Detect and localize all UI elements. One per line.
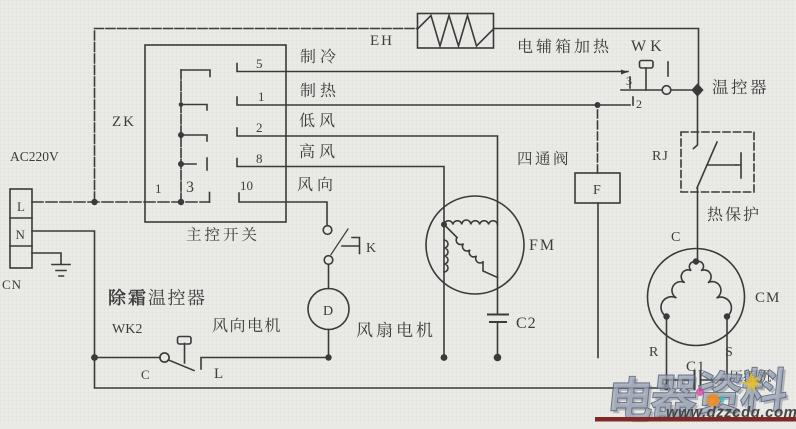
- label 除霜温控器: [109, 289, 125, 306]
- svg-text:CN: CN: [2, 277, 22, 292]
- junction S node: [724, 313, 730, 319]
- svg-text:3: 3: [186, 179, 194, 196]
- resistor EH heater: [418, 14, 494, 49]
- wire L input line: [32, 201, 210, 203]
- svg-text:10: 10: [240, 178, 253, 193]
- label 制冷: [301, 49, 316, 64]
- svg-text:8: 8: [256, 151, 263, 166]
- wire FM left leg to bus: [443, 225, 445, 358]
- watermark 电器资料: [595, 367, 796, 422]
- svg-text:C2: C2: [516, 315, 537, 332]
- wire row 5 cooling to WK pin3: [237, 64, 628, 72]
- svg-text:K: K: [366, 241, 376, 256]
- wire N line: [32, 231, 95, 358]
- wire EH to right bus corner: [494, 29, 699, 86]
- wire row 10 wind direction to K switch: [239, 193, 327, 226]
- junction C node: [693, 258, 699, 264]
- wire top bus from ZK area to EH: [95, 29, 418, 202]
- svg-text:C: C: [671, 230, 680, 245]
- label 高风: [300, 143, 314, 158]
- svg-text:EH: EH: [370, 33, 394, 49]
- label 电辅箱加热: [519, 39, 532, 53]
- label 温控器: [713, 79, 729, 94]
- svg-text:1: 1: [258, 89, 265, 104]
- svg-text:F: F: [593, 183, 601, 198]
- wire upper bus left to WK2: [95, 357, 161, 359]
- switch ZK movable contact column: [181, 70, 210, 201]
- junction dot L/bus: [91, 199, 97, 205]
- motor D wind direction: [308, 289, 349, 330]
- label 制热: [301, 83, 316, 98]
- thermal protector RJ: [681, 132, 754, 192]
- label 风向: [298, 177, 313, 191]
- thermostat WK lever and contacts: [621, 61, 693, 106]
- ground: [32, 253, 70, 276]
- label 四通阀: [519, 152, 532, 165]
- svg-text:L: L: [17, 199, 25, 214]
- label 低风: [299, 113, 314, 128]
- svg-text:5: 5: [256, 56, 263, 71]
- svg-text:WK: WK: [631, 38, 666, 55]
- svg-text:S: S: [725, 345, 733, 360]
- wire R leg: [666, 317, 668, 388]
- junction dot lower bus right end: [663, 384, 669, 390]
- label 主控开关: [187, 227, 201, 241]
- connector CN: [10, 189, 32, 268]
- capacitor C2: [488, 315, 508, 358]
- wire row 1 heating to WK pin2: [237, 97, 630, 105]
- wire lower bus: [95, 358, 667, 389]
- svg-text:1: 1: [155, 181, 162, 196]
- svg-text:3: 3: [626, 74, 632, 88]
- junction FM node: [441, 222, 447, 228]
- svg-text:2: 2: [636, 97, 642, 111]
- svg-text:RJ: RJ: [652, 149, 669, 164]
- wire S leg: [726, 317, 728, 381]
- wire D to bus: [328, 330, 330, 358]
- label 热保护: [708, 207, 723, 222]
- wire WK node down to RJ: [697, 96, 699, 133]
- svg-text:WK2: WK2: [112, 322, 142, 337]
- thermostat WK2 defrost switch: [160, 337, 327, 371]
- svg-text:2: 2: [256, 120, 263, 135]
- capacitor C1: [667, 371, 728, 389]
- svg-text:AC220V: AC220V: [10, 149, 59, 164]
- svg-text:CM: CM: [755, 290, 780, 306]
- motor FM fan: [426, 196, 524, 294]
- label 风向电机: [213, 318, 228, 332]
- switch ZK main control box: [145, 45, 286, 222]
- label 压缩机: [729, 370, 742, 382]
- wire K to D motor: [328, 265, 330, 289]
- svg-text:FM: FM: [529, 237, 556, 254]
- motor CM compressor: [648, 249, 745, 346]
- wire FM right leg to C2: [497, 225, 499, 314]
- svg-text:D: D: [323, 304, 333, 319]
- label 风扇电机: [357, 322, 373, 337]
- svg-text:N: N: [16, 227, 26, 242]
- wire valve F to row1 junction: [597, 105, 599, 173]
- junction dot ZK common: [178, 199, 184, 205]
- wire RJ to compressor C terminal: [697, 192, 699, 261]
- svg-text:ZK: ZK: [112, 114, 136, 130]
- junction dot N/bus: [91, 354, 98, 361]
- valve F four-way: [575, 173, 620, 203]
- svg-text:L: L: [214, 366, 223, 382]
- svg-text:C: C: [141, 367, 150, 382]
- svg-text:R: R: [649, 345, 659, 360]
- junction R node: [663, 313, 669, 319]
- junction four-way valve tap: [595, 102, 601, 108]
- junction node at WK output: [693, 85, 703, 96]
- wire row 2 low fan to FM: [237, 128, 498, 225]
- switch K: [323, 226, 359, 265]
- wire bus corner up to valve F: [597, 203, 599, 358]
- wire row 8 high fan to FM: [237, 159, 444, 225]
